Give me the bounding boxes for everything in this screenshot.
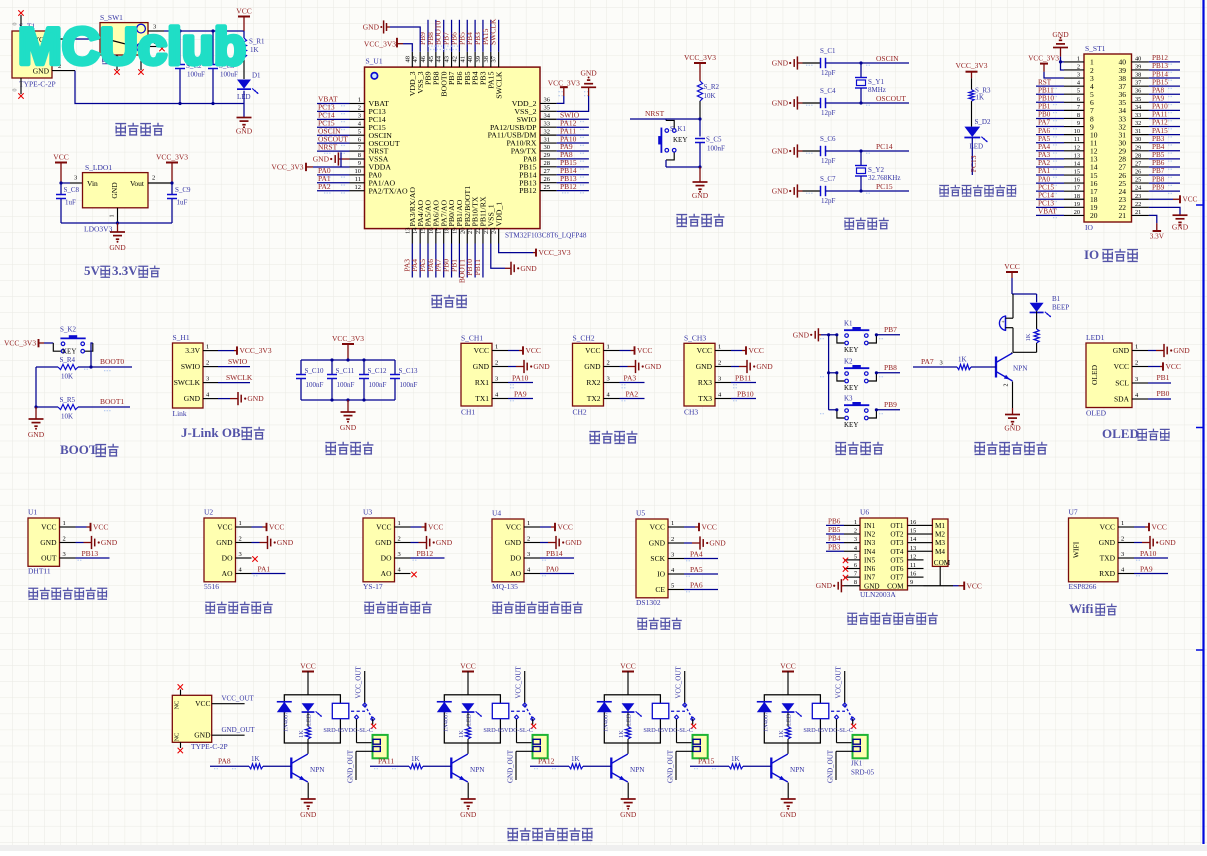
relay switch 3 — [671, 710, 685, 712]
pin U1.37 SWCLK — [498, 52, 500, 67]
wire base input net PA11 — [370, 765, 409, 767]
power port VCC oled — [1148, 366, 1160, 368]
svg-text:PB13: PB13 — [1152, 62, 1168, 70]
svg-text:KEY: KEY — [844, 384, 858, 392]
svg-text:PB13: PB13 — [82, 549, 99, 558]
svg-text:KEY: KEY — [673, 136, 687, 144]
svg-text:GND: GND — [1004, 424, 1021, 433]
svg-text:GND: GND — [184, 394, 201, 403]
resistor 1K base relay 3 — [569, 764, 583, 769]
wire net PA4 — [684, 558, 718, 560]
svg-text:34: 34 — [1135, 104, 1142, 111]
wire net OSCIN — [826, 62, 910, 64]
svg-text:MCUclub: MCUclub — [18, 18, 246, 76]
regulator S_LDO1 LDO3V3 — [83, 173, 149, 208]
svg-text:GND: GND — [864, 582, 880, 590]
svg-text:29: 29 — [1135, 144, 1141, 151]
ground GND keys — [818, 334, 821, 336]
svg-text:PA3: PA3 — [1038, 151, 1051, 159]
svg-text:22: 22 — [475, 228, 482, 235]
svg-text:IN6: IN6 — [864, 565, 876, 573]
svg-text:3: 3 — [527, 551, 530, 558]
diode 1N4007 4 — [757, 702, 772, 713]
ground GND relay 3 — [621, 798, 636, 800]
wire r2 to node — [699, 101, 701, 119]
svg-text:Vin: Vin — [87, 179, 98, 188]
wire resistor to base — [971, 366, 996, 368]
svg-text:16: 16 — [428, 227, 435, 234]
svg-text:GND: GND — [505, 538, 522, 547]
svg-text:1: 1 — [527, 520, 530, 527]
wire net PB1 io-left — [1036, 109, 1064, 111]
MCU U1 STM32F103C8T6 主芯片 — [365, 67, 541, 229]
node — [34, 405, 37, 408]
no-connect X relay 1 — [372, 719, 374, 725]
wire GND_OUT 2 — [516, 750, 533, 752]
pin U1.46 PB9 — [427, 52, 429, 67]
svg-text:STM32F103C8T6_LQFP48: STM32F103C8T6_LQFP48 — [505, 232, 587, 240]
driver U6 ULN2003A — [860, 518, 908, 590]
wire net PB9 — [876, 409, 900, 411]
module U4 MQ-135 — [492, 519, 524, 582]
node — [170, 181, 173, 184]
svg-text:VCC_3V3: VCC_3V3 — [4, 339, 36, 348]
wire net PA1 io-left — [1036, 174, 1064, 176]
ground GND U5 — [684, 542, 692, 544]
pin S_T1 top no-connect — [20, 15, 22, 31]
svg-text:PB12: PB12 — [417, 549, 434, 558]
svg-text:S_R2: S_R2 — [704, 83, 720, 91]
title 光照检测模块 — [205, 602, 215, 613]
relay coil box SRD-05VDC-SL-C 3 — [604, 695, 660, 743]
wire net PC14 — [317, 118, 350, 120]
svg-text:PB8: PB8 — [884, 363, 897, 372]
svg-text:1: 1 — [1135, 344, 1138, 351]
svg-text:NRST: NRST — [645, 109, 665, 118]
svg-text:LED: LED — [970, 143, 984, 151]
svg-text:YS-17: YS-17 — [363, 582, 383, 591]
wire gnd to io pin2 — [1061, 62, 1065, 70]
wire net PB4 io-right — [1149, 150, 1180, 152]
svg-text:2: 2 — [63, 536, 66, 543]
pin typec top no-connect — [180, 690, 182, 696]
svg-text:PA2: PA2 — [318, 182, 331, 191]
svg-text:GND: GND — [247, 394, 264, 403]
wire net PB6 — [826, 524, 844, 526]
svg-text:VCC_OUT: VCC_OUT — [355, 666, 363, 699]
wire net GND_OUT — [212, 734, 245, 736]
svg-text:PB3: PB3 — [828, 543, 841, 551]
pin U1.3 PC14 — [350, 118, 365, 120]
connector S_CH2 — [573, 343, 604, 406]
svg-text:2: 2 — [1004, 384, 1010, 387]
pin U1.35 VSS_2 — [540, 110, 557, 112]
svg-text:1K: 1K — [618, 730, 625, 738]
svg-text:34: 34 — [544, 112, 551, 119]
pin ST1.8 — [1064, 117, 1084, 119]
wire ldo bottom rail — [61, 222, 172, 224]
LED S_D2 — [964, 127, 980, 137]
wire net PA5 — [684, 573, 718, 575]
ground GND ldo — [117, 223, 119, 232]
power port VCC U5 — [684, 526, 695, 528]
svg-text:GND: GND — [194, 731, 211, 740]
resistor 1K base — [957, 364, 971, 369]
wire net PB12 — [557, 190, 589, 192]
svg-text:LDO3V3: LDO3V3 — [84, 225, 113, 234]
svg-text:S_R1: S_R1 — [249, 38, 265, 46]
svg-text:SRD-05: SRD-05 — [851, 769, 874, 777]
wire net PB5 top — [466, 20, 468, 52]
svg-text:SRD-05VDC-SL-C: SRD-05VDC-SL-C — [643, 727, 693, 734]
svg-text:GND: GND — [709, 539, 726, 548]
svg-text:TYPE-C-2P: TYPE-C-2P — [19, 80, 56, 89]
svg-text:GND_OUT: GND_OUT — [667, 749, 675, 783]
pin ST1.27 — [1132, 166, 1149, 168]
svg-text:GND_OUT: GND_OUT — [222, 726, 256, 734]
wire VDD_1 to VCC_3V3 — [499, 244, 533, 253]
svg-text:8: 8 — [854, 579, 857, 586]
pin ST1.28 — [1132, 158, 1149, 160]
wire net RST io-left — [1036, 85, 1064, 87]
svg-text:GND: GND — [696, 362, 713, 371]
svg-text:26: 26 — [544, 176, 551, 183]
svg-text:25: 25 — [1135, 177, 1141, 184]
svg-text:IN7: IN7 — [864, 574, 876, 582]
svg-text:S_C1: S_C1 — [820, 47, 836, 55]
svg-text:U7: U7 — [1069, 508, 1078, 517]
wire net PA11 — [557, 134, 589, 136]
svg-text:12: 12 — [1074, 144, 1080, 151]
svg-text:VCC_OUT: VCC_OUT — [515, 666, 523, 699]
wire net PB0 io-left — [1036, 117, 1064, 119]
svg-text:PB14: PB14 — [546, 549, 563, 558]
svg-text:RXD: RXD — [1099, 569, 1115, 578]
svg-text:IN4: IN4 — [864, 548, 876, 556]
resistor 1K base relay 4 — [729, 764, 743, 769]
svg-text:36: 36 — [1135, 88, 1141, 95]
wire filter top bus — [301, 359, 395, 361]
wire net BOOT0 top — [443, 20, 445, 52]
svg-text:PC14: PC14 — [876, 142, 893, 151]
svg-text:GND: GND — [109, 243, 126, 252]
svg-text:14: 14 — [1074, 160, 1081, 167]
svg-text:GND: GND — [772, 59, 789, 68]
svg-text:VCC_OUT: VCC_OUT — [835, 666, 843, 699]
svg-text:OLED: OLED — [1090, 364, 1099, 385]
svg-text:100nF: 100nF — [369, 381, 387, 389]
wire net PB13 io-right — [1149, 69, 1180, 71]
power port VCC U7 — [1134, 526, 1145, 528]
wire net PB9 top — [427, 20, 429, 52]
pin ST1.25 — [1132, 182, 1149, 184]
wire GND_OUT 1 — [356, 750, 373, 752]
svg-text:41: 41 — [459, 56, 466, 63]
pin ST1.1 — [1064, 61, 1084, 63]
wire net PB0 — [1148, 398, 1171, 400]
ground GND filter — [347, 400, 349, 412]
svg-text:37: 37 — [491, 55, 498, 62]
svg-text:VCC: VCC — [558, 523, 573, 532]
svg-text:S_Y1: S_Y1 — [868, 78, 884, 86]
ground GND power LED — [237, 117, 252, 119]
ground GND U7 — [1134, 542, 1142, 544]
wire to base 4 — [743, 765, 771, 767]
pin U1.10 PA0 — [350, 174, 365, 176]
connector TYPE-C-2P relay power input — [172, 695, 211, 742]
svg-text:31: 31 — [544, 136, 551, 143]
pin ST1.39 — [1132, 69, 1149, 71]
pin U1.41 PB5 — [466, 52, 468, 67]
wire switch to connector 2 — [516, 719, 518, 743]
pin ST1.20 — [1064, 214, 1084, 216]
wire net PB10 io-left — [1036, 101, 1064, 103]
pin U1.4 PC15 — [350, 126, 365, 128]
pin LDO.1 GND — [117, 208, 119, 223]
pin ST1.37 — [1132, 85, 1149, 87]
svg-text:22: 22 — [1135, 201, 1141, 208]
svg-text:GND: GND — [780, 810, 797, 819]
relay coil square 4 — [812, 703, 829, 718]
pushbutton S_K1 KEY — [665, 119, 667, 121]
svg-text:VBAT: VBAT — [1038, 208, 1057, 216]
relay switch 1 — [351, 710, 365, 712]
svg-text:DS1302: DS1302 — [636, 598, 661, 607]
svg-text:21: 21 — [467, 228, 474, 235]
svg-text:PA9: PA9 — [1140, 565, 1153, 574]
svg-text:GND: GND — [649, 539, 666, 548]
power port 3.3V — [1153, 230, 1162, 232]
svg-text:19: 19 — [1074, 201, 1080, 208]
svg-text:NPN: NPN — [630, 766, 645, 774]
wire net PA8 io-right — [1149, 93, 1180, 95]
svg-text:PA8: PA8 — [1152, 86, 1165, 94]
svg-text:32: 32 — [1135, 120, 1141, 127]
pin U1.33 PA12/USB/DP — [540, 126, 557, 128]
svg-text:NC: NC — [174, 733, 181, 742]
svg-text:33: 33 — [1135, 112, 1141, 119]
wire GND_OUT 3 — [676, 750, 693, 752]
svg-text:GND: GND — [1159, 538, 1176, 547]
wire net M2 — [924, 533, 933, 535]
resistor 1K relay 3 — [627, 713, 629, 727]
svg-text:Link: Link — [173, 409, 187, 418]
svg-text:PA10: PA10 — [1140, 549, 1157, 558]
svg-text:SWCLK: SWCLK — [174, 378, 201, 387]
wire VCC rail top — [164, 30, 244, 32]
wire vcc3v3 to VDD_3 — [403, 44, 412, 52]
svg-text:12pF: 12pF — [821, 197, 836, 205]
svg-text:23: 23 — [1135, 193, 1141, 200]
wire emitter to GND 4 — [787, 783, 789, 800]
wire net PB3 top — [482, 20, 484, 52]
svg-text:SWCLK: SWCLK — [226, 373, 253, 382]
wire io pin22 GND — [1149, 207, 1180, 215]
svg-text:3: 3 — [495, 376, 498, 383]
wire net PA4 io-left — [1036, 150, 1064, 152]
capacitor S_C2 100uF — [175, 64, 185, 66]
wire to base 3 — [583, 765, 611, 767]
svg-text:PB8: PB8 — [1152, 175, 1165, 183]
title 混合气体检测模块 — [492, 602, 502, 613]
resistor 1K alarm — [1034, 329, 1039, 343]
ground GND U3 — [411, 542, 419, 544]
svg-text:PB11: PB11 — [473, 259, 482, 276]
svg-text:U2: U2 — [204, 508, 213, 517]
svg-text:SCK: SCK — [650, 554, 665, 563]
svg-text:OT7: OT7 — [890, 574, 904, 582]
wire net PB7 top — [451, 20, 453, 52]
power port VCC_3V3 chip bottom — [535, 249, 537, 257]
wire net PB11 — [731, 382, 756, 384]
svg-text:1K: 1K — [958, 356, 967, 364]
svg-text:33: 33 — [544, 120, 551, 127]
svg-text:S_C11: S_C11 — [336, 367, 355, 375]
svg-text:PC13: PC13 — [1038, 200, 1054, 208]
node crystal 2 — [859, 149, 862, 152]
wire net PB5 — [826, 533, 844, 535]
svg-text:OT1: OT1 — [890, 522, 904, 530]
ground GND S_CH1 — [508, 366, 516, 368]
svg-text:SRD-05VDC-SL-C: SRD-05VDC-SL-C — [483, 727, 533, 734]
wire net PB12 — [411, 557, 445, 559]
svg-text:VCC: VCC — [702, 523, 717, 532]
svg-text:VCC_3V3: VCC_3V3 — [156, 153, 188, 162]
wire alarm collector rail — [1036, 343, 1038, 352]
wire net PA10 — [1134, 557, 1168, 559]
svg-text:3: 3 — [1121, 551, 1124, 558]
svg-text:GND: GND — [300, 810, 317, 819]
compile marks top — [428, 46, 429, 47]
pin U1.27 PB14 — [540, 174, 557, 176]
svg-text:8: 8 — [358, 152, 361, 159]
svg-text:28: 28 — [1135, 152, 1141, 159]
wire net PC15 io-left — [1036, 190, 1064, 192]
pin U1.25 PB12 — [540, 190, 557, 192]
wire net PA0 io-left — [1036, 182, 1064, 184]
svg-text:SWCLK: SWCLK — [494, 71, 503, 99]
svg-text:VCC_3V3: VCC_3V3 — [332, 334, 364, 343]
wire net SWIO — [557, 118, 589, 120]
svg-text:7: 7 — [854, 571, 857, 578]
svg-text:BEEP: BEEP — [1052, 304, 1069, 312]
wire to key S_K2 — [44, 342, 53, 344]
LED relay 2 — [462, 703, 475, 711]
svg-text:S_R5: S_R5 — [60, 396, 76, 404]
svg-text:23: 23 — [483, 228, 490, 235]
pin ST1.38 — [1132, 77, 1149, 79]
svg-text:PA5: PA5 — [690, 565, 703, 574]
svg-text:SWCLK: SWCLK — [489, 18, 498, 45]
svg-text:DO: DO — [381, 554, 392, 563]
svg-text:PA1: PA1 — [1038, 167, 1051, 175]
svg-text:37: 37 — [1135, 80, 1141, 87]
svg-text:VCC: VCC — [1114, 362, 1129, 371]
wire net PC14 io-left — [1036, 198, 1064, 200]
power port VCC_3V3 at VDDA — [313, 166, 350, 168]
module U5 DS1302 — [636, 519, 668, 598]
wire net NRST — [630, 118, 700, 120]
svg-text:0: 0 — [13, 89, 19, 92]
svg-text:OSCIN: OSCIN — [876, 54, 899, 63]
wire net PB15 io-right — [1149, 85, 1180, 87]
svg-text:10: 10 — [1074, 128, 1080, 135]
svg-text:S_C6: S_C6 — [820, 135, 836, 143]
svg-text:CE: CE — [655, 585, 665, 594]
svg-text:IN1: IN1 — [864, 522, 876, 530]
svg-text:14: 14 — [412, 227, 419, 234]
wire net PB6 io-right — [1149, 166, 1180, 168]
svg-text:M2: M2 — [935, 531, 945, 539]
title 主芯片 — [431, 296, 442, 308]
svg-text:PA15: PA15 — [698, 756, 715, 765]
svg-text:9: 9 — [358, 160, 361, 167]
svg-text:SDA: SDA — [1114, 395, 1130, 404]
svg-text:IO: IO — [1085, 223, 1093, 232]
motor connector M1-M4 — [932, 519, 948, 566]
svg-text:VCC_3V3: VCC_3V3 — [548, 78, 580, 87]
node io gnd — [1059, 60, 1062, 63]
wire T1 GND down to bottom rail — [75, 71, 244, 104]
wire net PA3 io-left — [1036, 158, 1064, 160]
svg-text:VCC: VCC — [526, 346, 541, 355]
pin ST1.35 — [1132, 101, 1149, 103]
svg-text:27: 27 — [544, 168, 551, 175]
svg-text:3.3V: 3.3V — [185, 346, 200, 355]
pin ST1.22 — [1132, 206, 1149, 208]
svg-text:7: 7 — [1077, 104, 1080, 111]
svg-text:PB11: PB11 — [735, 374, 752, 383]
svg-text:BOOT1: BOOT1 — [100, 397, 124, 406]
wire cap C3 branch — [212, 31, 214, 65]
svg-text:30: 30 — [544, 144, 551, 151]
pin ST1.19 — [1064, 206, 1084, 208]
svg-text:PB12: PB12 — [519, 186, 536, 195]
wire VSS_1 to GND — [491, 244, 505, 269]
svg-text:1: 1 — [398, 520, 401, 527]
pin S_T1 bottom no-connect — [20, 78, 22, 94]
wire gnd to VSS_3 — [390, 27, 420, 52]
pin ST1.29 — [1132, 150, 1149, 152]
wire net PA2 — [620, 398, 645, 400]
svg-text:RX1: RX1 — [475, 378, 489, 387]
svg-text:1: 1 — [206, 344, 209, 351]
relay switch 2 — [511, 710, 525, 712]
connector S_CH3 — [684, 343, 715, 406]
svg-text:20: 20 — [1074, 209, 1080, 216]
svg-text:PC13: PC13 — [969, 155, 978, 172]
svg-text:SWIO: SWIO — [181, 362, 201, 371]
svg-text:35: 35 — [1135, 96, 1141, 103]
svg-text:DHT11: DHT11 — [28, 567, 51, 576]
svg-text:21: 21 — [1135, 209, 1141, 216]
svg-text:CH1: CH1 — [461, 407, 475, 416]
pin U1.15 PA5/AO — [427, 229, 429, 244]
ground GND reset — [699, 167, 701, 182]
wire r3 to led — [971, 101, 973, 127]
pin ST1.5 — [1064, 93, 1084, 95]
transistor Q NPN alarm — [995, 357, 997, 378]
svg-text:13: 13 — [1074, 152, 1080, 159]
svg-text:LED: LED — [466, 713, 473, 726]
svg-text:11: 11 — [355, 176, 361, 183]
svg-text:PA10: PA10 — [512, 374, 529, 383]
svg-text:1K: 1K — [778, 730, 785, 738]
LED relay 3 — [622, 703, 635, 711]
svg-text:VDD_1: VDD_1 — [494, 202, 503, 227]
pin U1.14 PA4/AO — [419, 229, 421, 244]
svg-text:1K: 1K — [1025, 333, 1032, 341]
